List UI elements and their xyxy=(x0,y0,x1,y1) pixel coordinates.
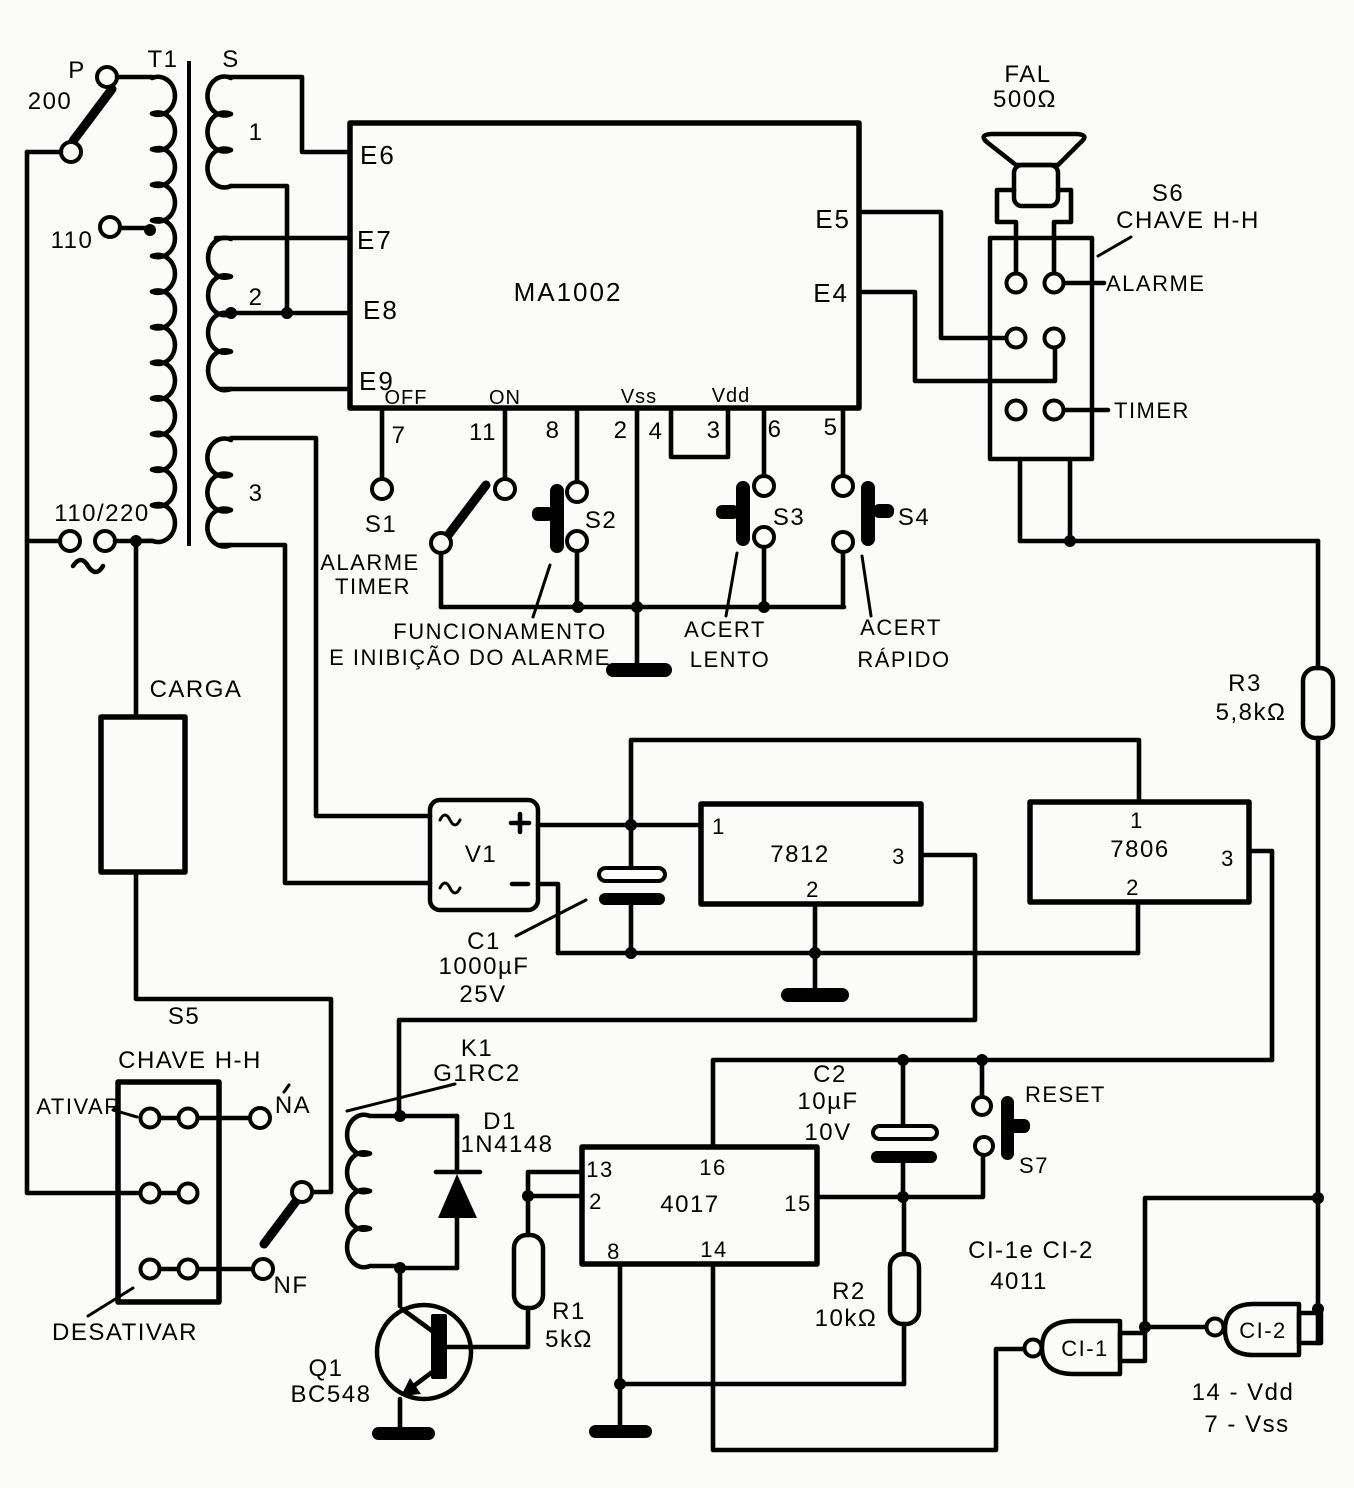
svg-text:E5: E5 xyxy=(815,204,851,234)
wire S4 to rail xyxy=(841,552,846,607)
svg-text:110/220: 110/220 xyxy=(54,500,149,527)
svg-text:FUNCIONAMENTO: FUNCIONAMENTO xyxy=(393,619,606,644)
transistor Q1 emitter stroke xyxy=(407,1370,435,1391)
diode D1 anode lead xyxy=(455,1216,460,1268)
wire CARGA to S5 lever pivot xyxy=(136,872,331,1192)
wire 4017 pin13 xyxy=(528,1172,581,1196)
svg-text:1000µF: 1000µF xyxy=(439,953,530,980)
wire winding1 top to E6 xyxy=(229,77,350,152)
svg-text:2: 2 xyxy=(249,284,264,311)
svg-text:S7: S7 xyxy=(1019,1153,1049,1178)
svg-text:V1: V1 xyxy=(465,841,497,868)
wire 7812 pin3 to relay K1 xyxy=(399,855,975,1116)
svg-text:LENTO: LENTO xyxy=(690,647,770,672)
node Vss rail junction xyxy=(631,601,643,613)
capacitor C2 bottom lead xyxy=(901,1163,906,1197)
switch S5 lever xyxy=(264,1200,297,1244)
terminal circle selector common xyxy=(61,142,81,162)
svg-text:ALARME: ALARME xyxy=(1106,271,1205,296)
svg-text:ATIVAR: ATIVAR xyxy=(36,1094,121,1119)
wire pin8 node to R2 xyxy=(620,1382,904,1387)
wire S6 bottom left xyxy=(1018,459,1023,541)
svg-text:P: P xyxy=(68,57,86,84)
wire winding1 bottom to E8 node xyxy=(231,186,287,313)
svg-text:S1: S1 xyxy=(365,511,397,538)
svg-text:200: 200 xyxy=(28,88,73,115)
wire C1 node up to 7806 pin1 xyxy=(631,740,1139,825)
svg-text:S4: S4 xyxy=(898,504,930,531)
svg-text:T1: T1 xyxy=(147,46,178,73)
capacitor C1 bottom plate xyxy=(599,893,665,905)
switch ON moving terminal xyxy=(431,533,451,553)
capacitor C2 top lead xyxy=(901,1060,906,1126)
V1 plus sign xyxy=(511,814,529,832)
wire 4017 pin15 xyxy=(817,1155,983,1197)
svg-text:4017: 4017 xyxy=(660,1191,719,1218)
wire 4017 pin16 to Vdd rail xyxy=(713,1060,1272,1147)
svg-text:CHAVE H-H: CHAVE H-H xyxy=(118,1047,262,1074)
callout ATIVAR xyxy=(113,1110,137,1117)
svg-text:25V: 25V xyxy=(459,981,506,1008)
svg-text:13: 13 xyxy=(586,1157,613,1182)
wire E4 to S6 xyxy=(859,292,1055,381)
node C2 top junction xyxy=(897,1054,909,1066)
secondary winding 3 xyxy=(207,439,231,547)
svg-text:3: 3 xyxy=(1221,846,1235,871)
capacitor C2 top plate xyxy=(873,1126,937,1139)
svg-text:7812: 7812 xyxy=(770,841,829,868)
wire pin8 xyxy=(575,408,580,482)
svg-text:CI-1e CI-2: CI-1e CI-2 xyxy=(968,1237,1094,1264)
callout funcionamento xyxy=(533,565,550,617)
callout S6 xyxy=(1098,237,1131,256)
terminal circle 110 xyxy=(100,217,120,237)
callout DESATIVAR xyxy=(88,1288,133,1316)
wire K1 bottom to D1 xyxy=(400,1266,457,1271)
svg-text:1: 1 xyxy=(712,814,726,839)
pushbutton S2 plunger xyxy=(550,484,564,553)
diode D1 cathode lead xyxy=(455,1116,460,1171)
S5 contact circles row1 xyxy=(141,1109,160,1128)
switch ON lever xyxy=(449,485,486,534)
svg-text:6: 6 xyxy=(768,416,783,443)
pushbutton S4 plunger xyxy=(861,481,875,546)
ground Vss xyxy=(606,663,672,677)
wire 7812 pin2 to ground xyxy=(813,904,818,988)
regulator 7812 box xyxy=(701,804,921,904)
secondary winding 2 xyxy=(208,238,231,390)
resistor R2 top lead xyxy=(902,1197,907,1254)
gate CI-2 body xyxy=(1225,1304,1299,1355)
wire CI-1 to CI-2 xyxy=(1145,1325,1206,1330)
wire pivot link xyxy=(311,1190,331,1195)
wire ground rail xyxy=(558,951,1138,956)
svg-text:C2: C2 xyxy=(813,1061,847,1088)
wire 7806 pin2 to ground rail xyxy=(1136,902,1141,953)
wire ALARME tick xyxy=(1064,281,1104,286)
svg-text:RESET: RESET xyxy=(1025,1082,1106,1107)
callout K1 xyxy=(347,1084,455,1111)
pushbutton S3 plunger xyxy=(736,481,750,546)
wire selector to left rail xyxy=(27,150,61,155)
diode D1 triangle xyxy=(438,1174,477,1218)
terminal circle NA xyxy=(250,1108,270,1128)
svg-text:ACERT: ACERT xyxy=(684,617,766,642)
terminal circle NF xyxy=(253,1259,273,1279)
node C1 top junction xyxy=(625,819,637,831)
svg-text:S: S xyxy=(222,46,240,73)
S6 contact circles row2 xyxy=(1007,329,1026,348)
callout acert rapido xyxy=(862,556,871,616)
transformer core xyxy=(187,61,191,546)
node R3 net junction top xyxy=(1312,1192,1324,1204)
svg-text:5,8kΩ: 5,8kΩ xyxy=(1216,699,1287,726)
svg-text:ACERT: ACERT xyxy=(860,615,942,640)
wire 4017 pin14 to CI-1 input xyxy=(713,1264,1024,1450)
node CI-1 output junction xyxy=(1139,1321,1151,1333)
gate CI-1 body xyxy=(1042,1321,1120,1374)
node 7812 pin2 junction xyxy=(809,947,821,959)
svg-text:14 - Vdd: 14 - Vdd xyxy=(1192,1379,1295,1406)
node pin8 junction xyxy=(614,1378,626,1390)
svg-text:S6: S6 xyxy=(1152,180,1184,207)
wire S6 to R3 rail xyxy=(1020,539,1318,544)
svg-text:8: 8 xyxy=(546,417,561,444)
V1 AC input tilde bottom xyxy=(440,883,460,893)
speaker FAL horn xyxy=(984,134,1085,165)
svg-text:10µF: 10µF xyxy=(797,1088,858,1115)
svg-text:7806: 7806 xyxy=(1110,836,1169,863)
wire S5 row3 to NF xyxy=(150,1267,253,1272)
switch S4 terminals xyxy=(833,476,853,496)
wire 110 tap xyxy=(120,226,150,231)
svg-text:4011: 4011 xyxy=(990,1268,1048,1295)
switch lever 200-tap selector xyxy=(73,89,112,141)
IC MA1002 box xyxy=(350,123,859,408)
node C1 bottom junction xyxy=(625,947,637,959)
gate CI-2 output tab xyxy=(1299,1313,1321,1343)
switch S3 terminals xyxy=(754,476,774,496)
svg-text:3: 3 xyxy=(249,480,264,507)
switch S6 box xyxy=(990,238,1092,459)
accent tick on NA xyxy=(284,1085,289,1092)
svg-text:S5: S5 xyxy=(168,1003,200,1030)
svg-text:S3: S3 xyxy=(773,504,805,531)
S5 contact circles row2 xyxy=(141,1184,160,1203)
secondary winding 1 xyxy=(207,76,231,187)
wire ON terminal to rail xyxy=(439,553,444,607)
svg-text:R3: R3 xyxy=(1228,670,1262,697)
node S3 rail junction xyxy=(758,601,770,613)
svg-text:Vdd: Vdd xyxy=(712,385,751,407)
svg-text:14: 14 xyxy=(700,1237,727,1262)
wire S5 row1 to NA xyxy=(150,1116,250,1121)
node S2 rail junction xyxy=(572,601,584,613)
wire R3 to CI-2 xyxy=(1316,738,1321,1343)
svg-text:2: 2 xyxy=(589,1189,603,1214)
svg-text:Vss: Vss xyxy=(621,386,657,408)
wire pin7 xyxy=(380,408,385,479)
wire pin6 xyxy=(762,408,767,476)
svg-text:E8: E8 xyxy=(363,295,399,325)
switch S2 terminals xyxy=(567,482,587,502)
ground 7812 xyxy=(781,988,849,1002)
resistor R1 top lead xyxy=(526,1196,531,1235)
wire winding3 bottom to V1 input xyxy=(220,545,430,883)
ground Q1 xyxy=(372,1427,435,1440)
wire K1 top to D1 xyxy=(400,1114,457,1119)
transistor Q1 base bar xyxy=(431,1314,447,1379)
node K1 top junction xyxy=(394,1110,406,1122)
callout acert lento xyxy=(726,553,737,616)
wire pins 4-3 staple xyxy=(671,408,728,457)
switch S7 terminals xyxy=(973,1097,991,1115)
load box CARGA xyxy=(101,717,185,872)
rectifier V1 box xyxy=(430,800,538,910)
gate CI-1 output tab xyxy=(1120,1333,1145,1361)
terminal circle 110/220 right xyxy=(95,531,115,551)
wire 4017 pin2 xyxy=(528,1194,581,1199)
svg-text:CARGA: CARGA xyxy=(150,676,243,703)
svg-text:500Ω: 500Ω xyxy=(993,86,1057,113)
switch S5 box xyxy=(118,1082,219,1302)
S5 pivot circle xyxy=(292,1182,312,1202)
resistor R2 body xyxy=(890,1254,919,1324)
IC 4017 box xyxy=(582,1147,817,1264)
transistor Q1 collector stroke xyxy=(402,1309,435,1333)
transformer T1 primary winding xyxy=(140,77,175,542)
node CI-2 tab junction xyxy=(1312,1303,1324,1315)
svg-text:2: 2 xyxy=(1126,875,1140,900)
svg-text:3: 3 xyxy=(892,844,906,869)
wire P to primary top xyxy=(117,75,152,80)
svg-text:7 - Vss: 7 - Vss xyxy=(1204,1411,1289,1438)
wire 4017 pin8 to ground xyxy=(618,1264,623,1425)
svg-text:OFF: OFF xyxy=(385,387,428,409)
svg-text:10V: 10V xyxy=(804,1119,851,1146)
svg-text:BC548: BC548 xyxy=(291,1381,372,1408)
svg-text:10kΩ: 10kΩ xyxy=(815,1305,878,1332)
node R2 top junction xyxy=(897,1191,909,1203)
capacitor C1 top lead xyxy=(629,825,634,868)
svg-text:2: 2 xyxy=(806,877,820,902)
S5 contact circles row3 xyxy=(141,1260,160,1279)
svg-text:11: 11 xyxy=(469,419,497,446)
wire E5 to S6 xyxy=(859,212,1006,338)
speaker yoke right xyxy=(1054,190,1071,272)
svg-text:110: 110 xyxy=(51,227,94,254)
S6 contact circles row3 xyxy=(1007,401,1026,420)
svg-text:TIMER: TIMER xyxy=(1114,398,1190,423)
diode D1 cathode bar xyxy=(436,1170,480,1175)
resistor R3 lead xyxy=(1316,541,1321,668)
switch ON fixed terminal xyxy=(495,479,515,499)
capacitor C2 bottom plate xyxy=(871,1151,937,1163)
wire Q1 base to R1 xyxy=(447,1308,528,1347)
svg-text:R2: R2 xyxy=(832,1278,866,1305)
svg-text:S2: S2 xyxy=(585,507,617,534)
node 110 tap junction xyxy=(144,224,156,236)
svg-text:16: 16 xyxy=(699,1155,726,1180)
svg-text:E INIBIÇÃO DO ALARME: E INIBIÇÃO DO ALARME xyxy=(329,645,611,670)
pushbutton S7 plunger xyxy=(1001,1096,1014,1160)
wire pin11 xyxy=(503,408,508,479)
AC tilde symbol xyxy=(73,560,103,572)
svg-text:5kΩ: 5kΩ xyxy=(545,1326,593,1353)
V1 minus sign xyxy=(512,882,528,887)
svg-text:3: 3 xyxy=(707,417,722,444)
V1 AC input tilde top xyxy=(440,815,460,825)
wire S2 to rail xyxy=(575,551,580,607)
svg-text:E7: E7 xyxy=(357,225,393,255)
wire pin2 Vss to ground xyxy=(635,408,640,663)
svg-text:5: 5 xyxy=(824,414,839,441)
resistor R1 body xyxy=(514,1235,543,1308)
resistor R2 bottom lead xyxy=(902,1324,907,1384)
node S6 rail junction xyxy=(1064,535,1076,547)
node S7 top junction xyxy=(976,1054,988,1066)
node K1 bottom junction xyxy=(394,1262,406,1274)
wire TIMER tick xyxy=(1066,408,1108,413)
ground 4017 xyxy=(589,1425,652,1438)
svg-text:7: 7 xyxy=(392,422,407,449)
svg-text:Q1: Q1 xyxy=(308,1355,343,1382)
transistor Q1 circle xyxy=(377,1305,471,1399)
wire S6 bottom right xyxy=(1068,459,1073,541)
wire 7806 pin3 to logic supply xyxy=(1249,851,1272,1060)
svg-text:K1: K1 xyxy=(461,1035,493,1062)
svg-text:1N4148: 1N4148 xyxy=(460,1131,553,1158)
wire winding3 top to V1 input xyxy=(231,438,430,816)
svg-text:1: 1 xyxy=(249,119,264,146)
svg-text:CHAVE H-H: CHAVE H-H xyxy=(1116,207,1260,234)
wire left rail down to S5 xyxy=(27,152,188,1193)
gate CI-2 input bubble xyxy=(1207,1319,1224,1336)
wire V1+ to 7812 pin1 xyxy=(538,823,701,828)
wire V1- to ground rail xyxy=(538,884,558,953)
capacitor C1 top plate xyxy=(599,868,665,881)
svg-text:C1: C1 xyxy=(467,928,501,955)
node primary bottom junction xyxy=(130,535,142,547)
svg-text:NF: NF xyxy=(274,1272,309,1299)
svg-text:E4: E4 xyxy=(813,278,849,308)
node winding2 center tap xyxy=(225,307,237,319)
svg-text:NA: NA xyxy=(275,1092,311,1119)
wire S3 to rail xyxy=(762,547,767,607)
terminal circle 110/220 left xyxy=(60,531,80,551)
svg-text:TIMER: TIMER xyxy=(335,574,411,599)
S6 contact circles row1 xyxy=(1007,274,1026,293)
wire E7 xyxy=(216,236,350,241)
switch S1 terminal xyxy=(372,479,392,499)
svg-text:2: 2 xyxy=(614,417,629,444)
wire pin5 xyxy=(841,408,846,476)
wire common rail S1-S4 xyxy=(441,605,844,610)
transistor Q1 emitter arrow xyxy=(401,1378,421,1396)
callout C1 xyxy=(516,900,586,936)
wire primary tap down to CARGA xyxy=(134,541,139,717)
svg-text:MA1002: MA1002 xyxy=(514,277,623,307)
svg-text:15: 15 xyxy=(784,1191,811,1216)
svg-text:1: 1 xyxy=(1130,808,1144,833)
wire E9 xyxy=(220,387,350,392)
svg-text:DESATIVAR: DESATIVAR xyxy=(52,1319,198,1346)
speaker driver xyxy=(1014,165,1058,206)
wire S7 top lead xyxy=(980,1060,985,1097)
wire K1 to Q1 collector xyxy=(398,1268,403,1306)
svg-text:R1: R1 xyxy=(552,1298,586,1325)
wire 110/220 right terminal to primary bottom xyxy=(115,539,136,544)
node E8 junction xyxy=(281,307,293,319)
node R1 pins13-2 junction xyxy=(522,1190,534,1202)
svg-text:CI-1: CI-1 xyxy=(1061,1336,1109,1361)
regulator 7806 box xyxy=(1030,802,1249,902)
gate CI-1 input bubble xyxy=(1025,1340,1042,1357)
svg-text:G1RC2: G1RC2 xyxy=(433,1060,521,1087)
svg-text:FAL: FAL xyxy=(1004,61,1051,88)
svg-text:8: 8 xyxy=(607,1239,621,1264)
wire CI-1 output up to R3 net xyxy=(1145,1198,1318,1333)
resistor R3 body xyxy=(1303,668,1333,738)
capacitor C1 bottom lead xyxy=(629,905,634,953)
svg-text:E6: E6 xyxy=(360,140,396,170)
svg-text:ALARME: ALARME xyxy=(320,550,419,575)
terminal circle P xyxy=(97,67,117,87)
speaker yoke left xyxy=(997,190,1016,272)
relay K1 coil xyxy=(347,1115,400,1268)
wire rail to 110/220 left terminal xyxy=(27,539,60,544)
wire Q1 emitter to ground xyxy=(398,1399,403,1427)
wire E8 xyxy=(231,311,350,316)
svg-text:4: 4 xyxy=(649,418,664,445)
svg-text:CI-2: CI-2 xyxy=(1239,1318,1287,1343)
svg-text:RÁPIDO: RÁPIDO xyxy=(857,647,950,672)
